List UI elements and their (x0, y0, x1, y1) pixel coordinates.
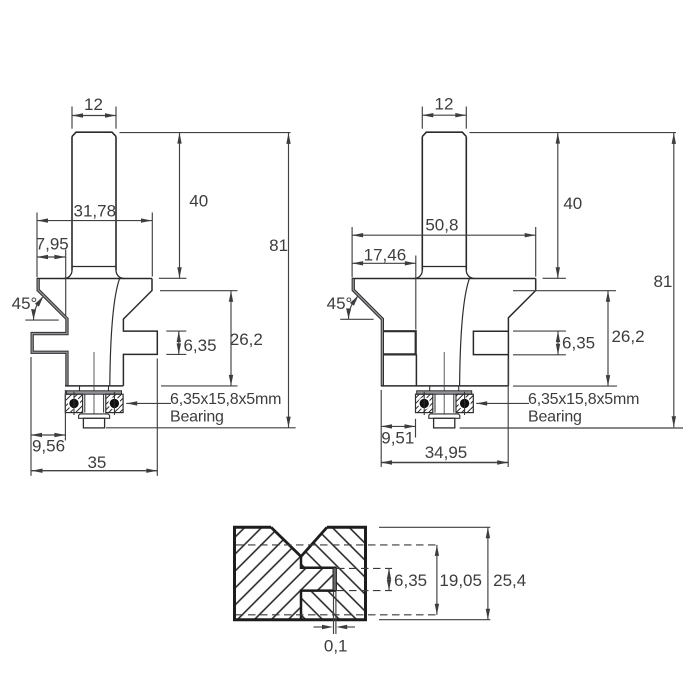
svg-text:45°: 45° (327, 294, 353, 313)
right bit bearing axis line (443, 352, 445, 418)
section right board hatch (301, 527, 366, 619)
section V groove (271, 527, 327, 556)
section outer outline (235, 527, 366, 619)
dim 12 line (72, 115, 116, 117)
svg-text:26,2: 26,2 (611, 327, 644, 346)
dim 81 bottom extension (106, 427, 296, 429)
section dashed reference lines (236, 544, 440, 546)
45 deg reference line (25, 319, 58, 321)
dim 7,95 line and extension (37, 256, 65, 258)
dim 12 extension lines right (421, 107, 423, 129)
dim 12 line right (422, 114, 466, 116)
bearing label arrow line right (476, 402, 529, 404)
left bit right profile with wing (123, 279, 157, 386)
right bit right slot (473, 331, 508, 354)
svg-text:17,46: 17,46 (364, 245, 407, 264)
right bit left slot (384, 331, 416, 354)
dim 40 bottom extension (159, 277, 187, 279)
svg-text:7,95: 7,95 (36, 234, 69, 253)
45 deg reference line right (340, 318, 373, 320)
svg-text:6,35x15,8x5mm: 6,35x15,8x5mm (528, 391, 639, 408)
section joint step line (301, 557, 336, 620)
left bit arbor neck ticks (79, 386, 81, 391)
dim 31,78 line and extensions (37, 220, 152, 222)
svg-text:6,35: 6,35 (562, 334, 595, 353)
svg-text:Bearing: Bearing (170, 409, 224, 426)
svg-text:50,8: 50,8 (425, 215, 458, 234)
right bit right profile (508, 279, 535, 386)
svg-text:35: 35 (87, 453, 106, 472)
RIGHT-BIT (352, 132, 536, 428)
svg-text:12: 12 (84, 95, 103, 114)
45 deg arc (34, 297, 43, 320)
dim 34,95 line and extension (381, 462, 508, 464)
dim 35 line and extension (32, 470, 158, 472)
left bit shank (64, 132, 124, 278)
section 0,1 gap band (333, 568, 336, 591)
RIGHT-DIMS (340, 107, 683, 468)
left bit bearing bore sleeve (84, 394, 86, 412)
section 0,1 annotation lines (333, 592, 335, 634)
dim 9,56 line and extensions (31, 434, 65, 436)
arrowheads right bit (422, 113, 433, 117)
top extension line (120, 132, 291, 134)
top extension line right (469, 132, 676, 134)
left bit body bottom (65, 385, 123, 387)
section solid extension lines (379, 526, 490, 528)
svg-text:6,35: 6,35 (394, 571, 427, 590)
right bit shank (414, 132, 474, 278)
dim 26,2 line and extensions right (513, 290, 616, 292)
right bit bearing balls (418, 397, 430, 409)
svg-text:12: 12 (435, 95, 454, 114)
svg-text:45°: 45° (12, 294, 38, 313)
45 deg arc right (349, 297, 358, 320)
right bit body bottom (381, 385, 508, 387)
left bit bearing top washer (67, 391, 122, 394)
dim 17,46 line and extension (352, 262, 416, 264)
dim 40 line (179, 133, 181, 279)
dim 81 line (288, 133, 290, 428)
dim 81 line right (673, 133, 675, 427)
dim 9,51 line and extension (381, 425, 416, 427)
right bit bearing bore sleeve (434, 394, 436, 412)
SECTION (235, 527, 366, 619)
left bit bearing axis line (93, 352, 95, 418)
dim 6,35 line and extensions right (513, 330, 566, 332)
svg-text:31,78: 31,78 (74, 202, 117, 221)
dim 6,35 wing line and extensions (166, 330, 186, 332)
svg-text:9,51: 9,51 (381, 429, 414, 448)
dim 50,8 line and extensions (352, 234, 536, 236)
right bit washer under bearing (429, 414, 460, 418)
svg-text:6,35: 6,35 (183, 336, 216, 355)
left bit flute curve (110, 279, 120, 386)
svg-text:81: 81 (653, 272, 672, 291)
right bit screw head (434, 418, 455, 428)
left bit bearing balls (68, 397, 80, 409)
dim 26,2 line and extensions (160, 290, 238, 292)
svg-text:81: 81 (269, 236, 288, 255)
dim 40 line right (557, 133, 559, 279)
LEFT-DIMS (25, 107, 295, 476)
dim 12 extension lines (71, 107, 73, 129)
svg-text:26,2: 26,2 (230, 330, 263, 349)
svg-text:6,35x15,8x5mm: 6,35x15,8x5mm (170, 391, 281, 408)
left bit washer under bearing (79, 414, 110, 418)
svg-text:0,1: 0,1 (324, 636, 348, 655)
bearing label arrow line (126, 402, 171, 404)
right bit flute curve (460, 279, 470, 386)
arrowheads left bit (72, 113, 83, 117)
arrowheads section (387, 568, 391, 579)
svg-text:34,95: 34,95 (425, 443, 468, 462)
left bit flange top (37, 278, 152, 280)
right bit bearing outer blocks (416, 394, 433, 412)
right bit arbor neck ticks (429, 386, 431, 391)
left bit carbide band (left cutting profile with tongue) (31, 279, 68, 386)
LEFT-BIT (31, 132, 157, 428)
section dim lines (388, 568, 390, 590)
svg-text:25,4: 25,4 (493, 571, 526, 590)
svg-text:19,05: 19,05 (439, 571, 482, 590)
right bit flange top (352, 278, 536, 280)
section left board hatch (235, 527, 335, 619)
svg-text:Bearing: Bearing (528, 409, 582, 426)
left bit screw head (83, 418, 104, 428)
right bit bearing top washer (417, 391, 472, 394)
left bit bearing outer blocks (65, 394, 82, 412)
svg-text:40: 40 (563, 194, 582, 213)
svg-text:9,56: 9,56 (32, 437, 65, 456)
svg-text:40: 40 (189, 191, 208, 210)
right bit carbide band left profile (352, 279, 383, 386)
